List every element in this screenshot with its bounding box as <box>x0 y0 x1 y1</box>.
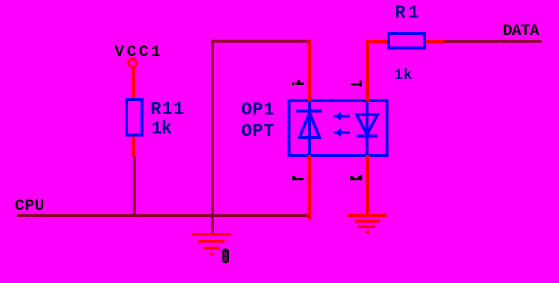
wire CPU net vertical from R11 <box>133 156 136 217</box>
svg-text:1k: 1k <box>394 67 413 84</box>
wire DATA net horizontal <box>445 40 542 43</box>
wire R1 left lead horizontal <box>366 40 388 43</box>
svg-text:OP1: OP1 <box>241 101 274 121</box>
label ground net 0 <box>223 250 228 263</box>
pin number 3 bottom-left <box>292 176 304 180</box>
diode D-left cathode bar <box>296 110 322 113</box>
wire opto pin1 top-left <box>308 40 312 101</box>
svg-text:VCC1: VCC1 <box>115 43 164 61</box>
node VCC1 power port <box>129 59 137 67</box>
wire CPU net horizontal <box>17 214 311 217</box>
svg-text:DATA: DATA <box>503 22 540 40</box>
wire opto pin4 top-right vertical <box>366 40 370 101</box>
wire opto pin3 bottom-right <box>366 155 370 216</box>
arrow lower left-pointing <box>334 128 351 137</box>
optocoupler U1 body <box>289 101 387 156</box>
resistor R11 <box>127 100 143 136</box>
wire opto pin2 bottom-left <box>308 155 312 219</box>
svg-text:R11: R11 <box>151 100 185 120</box>
svg-text:R1: R1 <box>395 3 422 23</box>
pin number 1 top-right <box>351 81 363 87</box>
pin number 2 bottom-right <box>350 175 362 180</box>
optocoupler left pin line <box>308 101 311 156</box>
diode D-right triangle <box>357 115 378 135</box>
diode D-left triangle <box>300 113 320 138</box>
svg-text:CPU: CPU <box>15 197 45 215</box>
wire CPU net vertical riser with ground stem <box>211 40 214 234</box>
ground D symbol bars <box>192 233 231 255</box>
pin number 4 top-left <box>292 80 304 85</box>
ground right symbol <box>348 214 387 233</box>
wire CPU net top horizontal <box>211 40 311 43</box>
resistor R1 <box>389 34 425 49</box>
svg-text:1k: 1k <box>151 119 172 139</box>
wire R1 right lead <box>426 40 445 43</box>
diode D-right cathode bar <box>357 135 378 138</box>
wire R11 top lead <box>132 67 136 98</box>
svg-text:OPT: OPT <box>241 122 274 142</box>
arrow upper left-pointing <box>334 112 351 121</box>
wire R11 bottom lead <box>132 137 136 157</box>
optocoupler right pin line <box>366 101 369 156</box>
